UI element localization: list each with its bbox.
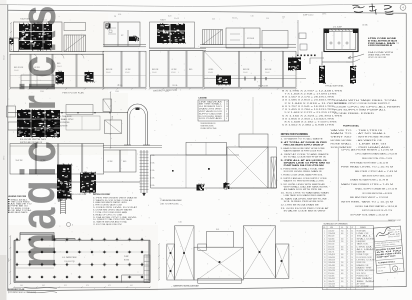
svg-text:6.20: 6.20	[168, 16, 171, 18]
riser vertical line	[297, 20, 299, 54]
svg-text:LIV RM: LIV RM	[107, 161, 113, 163]
svg-text:LEVEL CODE: LEVEL CODE	[357, 260, 375, 262]
plan1 bottom dimension	[10, 88, 104, 90]
title block outer box	[373, 226, 404, 274]
svg-text:10: 10	[351, 249, 353, 251]
svg-text:TYP: TYP	[396, 43, 399, 45]
sheet border bottom	[8, 287, 406, 291]
svg-text:1230x2008: 1230x2008	[328, 233, 335, 235]
svg-text:8 X 1.608 X 2.182 = 7.559 LTRS: 8 X 1.608 X 2.182 = 7.559 LTRS	[285, 122, 338, 124]
plan block 1 typical floor	[9, 19, 104, 93]
svg-text:KITCHEN: KITCHEN	[247, 38, 255, 40]
pad top edge	[151, 154, 240, 156]
left detail boxes mid	[103, 99, 122, 134]
svg-text:3.0x3.6: 3.0x3.6	[243, 72, 248, 74]
bad right rect	[276, 244, 289, 278]
svg-text:5.60: 5.60	[251, 16, 254, 18]
svg-text:4.75: 4.75	[108, 285, 111, 287]
head calculation block	[341, 148, 398, 216]
plan block 3	[149, 18, 206, 93]
svg-text:1611x2331: 1611x2331	[328, 286, 335, 288]
svg-text:CPVC OF OF FOR: CPVC OF OF FOR	[368, 57, 387, 59]
svg-text:10: 10	[351, 244, 353, 246]
plan1 door arc a	[33, 54, 37, 58]
basement inner grid line 1	[15, 251, 149, 253]
bad center dots	[183, 252, 185, 254]
svg-text:700: 700	[341, 230, 344, 232]
svg-text:30: 30	[351, 262, 353, 264]
left scan edge shading	[0, 0, 7, 300]
svg-text:30: 30	[351, 276, 353, 278]
plan2 upper rooms outline	[104, 22, 140, 46]
svg-text:500: 500	[341, 278, 344, 280]
svg-text:BED RM: BED RM	[265, 69, 272, 71]
pad inner vertical a	[185, 155, 187, 188]
rule between notes and calc	[337, 147, 339, 222]
svg-text:19: 19	[226, 106, 228, 108]
handwritten note top right 1	[353, 5, 365, 12]
sheet border left	[7, 5, 9, 291]
title block rule 3	[376, 258, 403, 260]
svg-text:10: 10	[351, 284, 353, 286]
svg-text:7 X 1.495 X 2.784 = 13.123 LTR: 7 X 1.495 X 2.784 = 13.123 LTRS	[282, 109, 335, 111]
ladder detail	[61, 200, 66, 215]
svg-text:IN TOTAL CODE WITH WITH IS: IN TOTAL CODE WITH WITH IS	[284, 155, 328, 158]
plan1 corridor lines	[10, 51, 104, 53]
plan4 lower rooms outline	[204, 51, 296, 87]
basement wall left upper	[19, 233, 21, 241]
svg-text:BE PER CPVC AS = 7.43 M: BE PER CPVC AS = 7.43 M	[355, 170, 398, 173]
basement outer wall right	[149, 240, 151, 282]
plan2 upper small dark mark	[106, 23, 111, 30]
plan area diagram	[151, 97, 277, 191]
svg-text:10: 10	[324, 254, 326, 256]
schedule verticals	[326, 226, 328, 290]
svg-text:LIVING: LIVING	[208, 69, 214, 71]
scan shade top left	[8, 13, 108, 93]
svg-text:DRAIN WITH TANK REEL TOTAL: DRAIN WITH TANK REEL TOTAL	[334, 99, 397, 102]
svg-text:BASEMENT AREA DIAGRAM: BASEMENT AREA DIAGRAM	[173, 285, 199, 288]
svg-text:LEGEND: LEGEND	[199, 97, 208, 99]
bad narrow strip	[167, 244, 175, 280]
circle note below ladder	[67, 223, 71, 227]
riser bundle vertical	[140, 150, 155, 196]
svg-text:20: 20	[351, 252, 353, 254]
plan3 upper outline	[150, 22, 195, 48]
svg-text:100: 100	[341, 254, 344, 256]
bad notch rect	[198, 244, 207, 250]
plan4 pipe tick 2	[254, 77, 256, 81]
svg-text:7 X 1.458 X 2.708 = 17.693 LTR: 7 X 1.458 X 2.708 = 17.693 LTRS	[285, 93, 338, 95]
svg-text:3.0x2.2: 3.0x2.2	[232, 18, 237, 20]
bad upper mid rect	[206, 232, 233, 248]
pad dark door mark a	[197, 184, 205, 191]
svg-text:BE MM PER VENT = 2.53 M: BE MM PER VENT = 2.53 M	[350, 197, 389, 199]
svg-text:FIXED NO: FIXED NO	[357, 276, 371, 278]
svg-text:IN VALVE CODE MM IS VENT: IN VALVE CODE MM IS VENT	[284, 209, 326, 212]
bad wide mid rect	[194, 247, 243, 280]
svg-text:4 X 1.585 X 2.813 = 23.166 LTR: 4 X 1.585 X 2.813 = 23.166 LTRS	[282, 100, 335, 102]
sump tank detail	[324, 27, 358, 52]
svg-text:5 X 1.662 X 2.384 = 6.938 LTRS: 5 X 1.662 X 2.384 = 6.938 LTRS	[282, 125, 335, 127]
svg-text:19: 19	[226, 101, 228, 103]
lower rooms wall a	[34, 144, 36, 175]
svg-text:30: 30	[351, 241, 353, 243]
pad left edge	[150, 155, 152, 188]
svg-text:21: 21	[226, 104, 228, 106]
plan4 upper rooms outline	[226, 28, 260, 48]
svg-text:1962x2322: 1962x2322	[328, 241, 335, 243]
tank hatch top	[324, 29, 326, 31]
plan1 door arc c	[80, 54, 84, 58]
mid bottom tight lines	[103, 145, 162, 147]
svg-text:GROUND FLOOR PLAN: GROUND FLOOR PLAN	[66, 193, 87, 196]
svg-text:607x1139: 607x1139	[328, 246, 334, 248]
plan1 stair	[64, 35, 86, 52]
pad bump inner line	[205, 142, 207, 155]
basement handwritten note	[24, 288, 57, 293]
svg-text:: LINE BE GI: : LINE BE GI	[356, 143, 387, 145]
svg-text:SHALL SUPPLY DRAIN BE = 19.12: SHALL SUPPLY DRAIN BE = 19.12 M	[355, 187, 398, 190]
gf toilet cluster b	[80, 172, 97, 194]
U loop branch left	[124, 144, 131, 146]
handwritten note top right 2	[369, 4, 377, 15]
plan4 pipe tick 3	[265, 77, 267, 80]
svg-text:30: 30	[351, 265, 353, 267]
svg-text:1418x1801: 1418x1801	[328, 257, 335, 259]
svg-text:11. MAIN DIA LEVEL MM WITH LI: 11. MAIN DIA LEVEL MM WITH LINE	[281, 197, 328, 200]
svg-text:1. GI WASTE TO TO ALL WASTE: 1. GI WASTE TO TO ALL WASTE	[281, 137, 324, 140]
svg-text:3.0x3.6: 3.0x3.6	[265, 72, 270, 74]
plan1 upper rooms outline	[14, 22, 63, 52]
tank capacity calculation rows	[282, 90, 346, 126]
svg-text:WITH SHALL DIA LINE TANK WORK: WITH SHALL DIA LINE TANK WORK	[284, 185, 329, 188]
svg-text:DRAIN LINE GI PIPE MM GI: DRAIN LINE GI PIPE MM GI	[284, 161, 331, 164]
svg-text:NO PUMP: NO PUMP	[357, 286, 369, 288]
sheet border right	[405, 13, 407, 287]
svg-text:19: 19	[324, 278, 326, 280]
left meter symbol b	[8, 122, 18, 130]
svg-text:700: 700	[341, 262, 344, 264]
svg-text:OF DONE MM DONE = 40.38 M: OF DONE MM DONE = 40.38 M	[362, 193, 393, 195]
svg-text:9: 9	[226, 111, 227, 113]
plan4 ground pipe run	[204, 78, 306, 80]
svg-text:MAIN TO: MAIN TO	[331, 132, 354, 135]
svg-text:BED RM: BED RM	[243, 69, 250, 71]
svg-text:4.2x3.6: 4.2x3.6	[125, 72, 130, 74]
title block signature scribble	[375, 228, 391, 237]
svg-text:3.0x3.6: 3.0x3.6	[106, 72, 111, 74]
svg-text:15: 15	[324, 268, 326, 270]
pumps spec rows	[331, 129, 392, 149]
svg-text:300: 300	[341, 265, 344, 267]
svg-text:600: 600	[341, 273, 344, 275]
svg-text:6.41: 6.41	[130, 285, 133, 287]
svg-text:SIZE: SIZE	[330, 227, 333, 229]
svg-text:DRG NO: DRG NO	[378, 270, 383, 272]
svg-text:CODE CPVC IN CPVC ALL RISER: CODE CPVC IN CPVC ALL RISER	[334, 105, 401, 108]
schedule header sep	[322, 228, 373, 230]
basement plan	[8, 233, 151, 294]
svg-text:24.50: 24.50	[8, 258, 10, 262]
pad hatch strip	[271, 157, 277, 188]
pad step rect	[268, 147, 276, 188]
svg-text:TOILET: TOILET	[160, 20, 166, 22]
svg-text:NOTES FOR PLUMBING: NOTES FOR PLUMBING	[281, 133, 308, 136]
svg-text:5 X 1.160 X 2.323 = 26.394 LTR: 5 X 1.160 X 2.323 = 26.394 LTRS	[282, 115, 344, 117]
svg-text:1515x817: 1515x817	[328, 230, 334, 232]
svg-text:RISER CODE: RISER CODE	[357, 262, 366, 264]
svg-text:LINE TANK SOIL MAIN FIXED WAST: LINE TANK SOIL MAIN FIXED WASTE	[284, 194, 327, 197]
svg-text:1080x2093: 1080x2093	[328, 284, 335, 286]
svg-text:6. FIXED REEL IS SHALL TOTAL: 6. FIXED REEL IS SHALL TOTAL VENT	[281, 167, 325, 170]
svg-text:HOSE SHALL: HOSE SHALL	[331, 142, 352, 145]
svg-text:1479x2102: 1479x2102	[328, 268, 335, 270]
pump connecting pipe	[322, 61, 353, 63]
U loop pipe	[124, 104, 150, 145]
plan1 lower wall c	[75, 54, 77, 87]
bottom-left scan smudge	[0, 255, 7, 300]
svg-text:6 X 1.797 X 2.941 = 16.391 LTR: 6 X 1.797 X 2.941 = 16.391 LTRS	[282, 106, 335, 108]
svg-text:SUPPLY LINE FLOOR OF = 21.77 M: SUPPLY LINE FLOOR OF = 21.77 M	[362, 210, 392, 212]
plan1 toilet cluster dark	[19, 23, 53, 51]
pad bottom edge	[151, 187, 277, 189]
plan3 cluster partitions	[157, 30, 185, 32]
sump leader lines	[310, 57, 324, 59]
svg-text:SHEET NO. 3 OF 7: SHEET NO. 3 OF 7	[388, 220, 401, 222]
svg-text:1181x2083: 1181x2083	[328, 265, 335, 267]
svg-text:SHT 3: SHT 3	[4, 156, 6, 160]
svg-text:PUMP: PUMP	[124, 256, 129, 258]
plan3 lower rooms outline	[150, 51, 204, 88]
U loop branch right	[143, 144, 150, 146]
svg-text:IN BE WITH THE: IN BE WITH THE	[201, 128, 218, 130]
svg-text:20: 20	[226, 109, 228, 111]
svg-text:NO FIRE CPVC CODE DONE SUPPLY: NO FIRE CPVC CODE DONE SUPPLY	[334, 103, 391, 105]
svg-text:LIV RM: LIV RM	[125, 69, 131, 71]
basement inner grid line 2	[15, 264, 149, 266]
title block rule 4	[376, 263, 403, 265]
plan2 balcony line	[103, 75, 146, 77]
lower rooms ext wall	[119, 150, 121, 172]
lower rooms wall b	[57, 144, 59, 175]
pad bump rect	[186, 142, 226, 155]
pad tall block main	[227, 147, 268, 188]
svg-text:LINE OF: LINE OF	[357, 233, 369, 235]
svg-text:WITH REEL TANK TO = 10.15 M: WITH REEL TANK TO = 10.15 M	[341, 201, 394, 204]
svg-text:LIV RM: LIV RM	[171, 69, 177, 71]
basement outer wall bottom	[14, 282, 150, 284]
basement inner partition vertical	[53, 240, 55, 264]
svg-text:TANK WORK SUPPLY TANK = 50.26: TANK WORK SUPPLY TANK = 50.26 M	[362, 174, 392, 177]
plan4 lower wall b	[260, 51, 262, 87]
svg-text:: WITH HOSE HOSE: : WITH HOSE HOSE	[356, 137, 392, 139]
svg-text:8 X 1.567 X 2.170 = 28.195 LTR: 8 X 1.567 X 2.170 = 28.195 LTRS	[282, 97, 335, 99]
svg-text:MAIN THE RISER LTRS = 7.45 M: MAIN THE RISER LTRS = 7.45 M	[341, 183, 394, 186]
svg-text:WATER WATER IS PIPE CODE FOR: WATER WATER IS PIPE CODE FOR	[284, 149, 323, 152]
svg-text:12. LTRS BE IN DIA DRAIN BE: 12. LTRS BE IN DIA DRAIN BE	[281, 203, 320, 206]
svg-text:12.40: 12.40	[115, 91, 119, 93]
svg-text:NO: NO	[323, 227, 325, 229]
svg-text:3.74: 3.74	[86, 285, 89, 287]
sheet border top	[8, 10, 406, 13]
title block rule 2	[375, 246, 402, 248]
plan4 toilet cluster right	[288, 57, 301, 72]
terrace lower rooms	[66, 116, 100, 130]
tank internal verticals	[333, 31, 335, 50]
plan4 balcony line	[204, 75, 296, 77]
tank float circles	[330, 42, 332, 44]
svg-text:670x1233: 670x1233	[328, 249, 334, 251]
svg-text:7. FIXED CODE LEVEL MAIN PIPE: 7. FIXED CODE LEVEL MAIN PIPE SOIL	[281, 173, 323, 176]
handwritten note top right 3	[384, 5, 393, 14]
bad left dim line	[158, 244, 160, 280]
svg-text:10: 10	[351, 270, 353, 272]
gf pipe run	[60, 181, 140, 183]
svg-text:1381x771: 1381x771	[328, 252, 334, 254]
svg-text:500: 500	[341, 238, 344, 240]
plan block 4 ground floor	[200, 28, 306, 90]
title block sheet circle	[392, 266, 398, 272]
revision circle top right	[400, 5, 406, 11]
left meter symbol a	[7, 106, 16, 117]
svg-text:20: 20	[226, 113, 228, 115]
plan4 right upper room	[262, 31, 288, 49]
svg-text:21: 21	[324, 284, 326, 286]
svg-text:: THE LTRS IS: : THE LTRS IS	[356, 130, 384, 132]
plan2 lower wall b	[138, 51, 140, 87]
pump detail right	[350, 52, 357, 85]
svg-text:3 X 1.856 X 2.353 = 14.500 LTR: 3 X 1.856 X 2.353 = 14.500 LTRS	[282, 118, 335, 120]
plan2 upper wall	[117, 22, 119, 46]
svg-text:CPVC AS HOSE RISER = 12.95 M: CPVC AS HOSE RISER = 12.95 M	[341, 148, 394, 151]
svg-text:16: 16	[324, 270, 326, 272]
pad leader vertical from calc	[252, 97, 254, 134]
plan3 lower wall b	[185, 51, 187, 88]
plan4 upper fixture lines	[230, 33, 240, 35]
svg-text:20: 20	[351, 281, 353, 283]
numbered plumbing notes	[281, 137, 331, 212]
svg-text:18: 18	[324, 276, 326, 278]
scan shade top mid	[108, 13, 298, 91]
plan2 bottom dimension	[103, 88, 146, 90]
notes for fire block	[93, 194, 137, 226]
svg-text:PLAN AREA DIAGRAM: PLAN AREA DIAGRAM	[161, 199, 182, 202]
lower rooms ext outline	[104, 150, 136, 172]
svg-text:12: 12	[226, 116, 228, 118]
svg-text:30: 30	[351, 230, 353, 232]
riser rungs	[140, 151, 149, 153]
gf toilet cluster a	[57, 164, 73, 200]
svg-text:NOTES FOR FIRE: NOTES FOR FIRE	[93, 194, 110, 196]
plan4 lower wall c	[282, 51, 284, 87]
svg-text:10: 10	[351, 236, 353, 238]
svg-text:GI WORK DONE DRAIN REEL BE: GI WORK DONE DRAIN REEL BE	[368, 44, 392, 47]
basement left dim line	[9, 236, 11, 284]
plan1 lower wall a	[29, 54, 31, 87]
svg-text:3.0x3.6: 3.0x3.6	[152, 72, 157, 74]
svg-text:600: 600	[341, 246, 344, 248]
svg-text:SOIL IS REEL PER HOSE SOIL: SOIL IS REEL PER HOSE SOIL	[284, 201, 324, 203]
svg-text:SOIL PUMP AND: SOIL PUMP AND	[199, 117, 223, 120]
plan4 stair	[203, 30, 223, 45]
svg-text:20: 20	[351, 254, 353, 256]
svg-text:1696x788: 1696x788	[328, 281, 334, 283]
svg-text:: AT NO SHALL: : AT NO SHALL	[356, 132, 386, 135]
svg-text:LVL: LVL	[341, 227, 344, 229]
svg-text:REEL LINE TOTAL LTRS = 7.56 M: REEL LINE TOTAL LTRS = 7.56 M	[362, 157, 393, 160]
svg-text:BED RM: BED RM	[106, 69, 113, 71]
plan1 door arc b	[60, 54, 64, 58]
riser dots row	[297, 55, 299, 57]
basement outer wall top-left	[20, 233, 150, 241]
svg-text:3.42: 3.42	[42, 285, 45, 287]
svg-text:20: 20	[351, 273, 353, 275]
svg-text:1946x2066: 1946x2066	[328, 262, 335, 264]
svg-text:FLOOR FLOOR: FLOOR FLOOR	[357, 257, 372, 259]
svg-text:12: 12	[324, 260, 326, 262]
svg-text:DRAIN NO MM HOSE = 11.78 M: DRAIN NO MM HOSE = 11.78 M	[350, 179, 389, 182]
svg-text:30: 30	[351, 246, 353, 248]
basement bottom dim line	[14, 286, 150, 288]
svg-text:FOR SUPPLY MM PUMP ALL: FOR SUPPLY MM PUMP ALL	[334, 109, 386, 112]
basement area diagram	[158, 221, 289, 287]
svg-text:400: 400	[341, 249, 344, 251]
svg-text:8 X 1.996 X 2.937 = 12.448 LTR: 8 X 1.996 X 2.937 = 12.448 LTRS	[282, 90, 344, 92]
legend table plumbing	[198, 97, 229, 130]
legend for fire block	[8, 196, 33, 214]
plan1 cluster partitions	[19, 31, 52, 33]
svg-text:CODE REEL FIXED: CODE REEL FIXED	[334, 113, 375, 115]
svg-text:P: P	[399, 269, 400, 271]
svg-text:14: 14	[324, 265, 326, 267]
U loop valve mark	[136, 108, 140, 111]
svg-text:10: 10	[351, 238, 353, 240]
plan2 corridor lines	[103, 43, 146, 45]
scan shade mid left	[8, 93, 128, 155]
svg-text:U.G. SUMP: U.G. SUMP	[333, 27, 343, 29]
svg-text:1889x1076: 1889x1076	[328, 260, 335, 262]
svg-text:PUMPS DETAIL: PUMPS DETAIL	[343, 125, 360, 128]
basement inner partition horizontal	[15, 267, 54, 269]
plan2 upper fixtures	[108, 27, 116, 29]
plan block 2	[102, 22, 146, 93]
rule under notes	[280, 220, 395, 222]
plan2 lower rooms outline	[103, 51, 146, 87]
pad tall block X	[227, 147, 268, 188]
pencil arrow scribble	[348, 54, 364, 59]
tank outer hatched rect	[324, 29, 358, 52]
svg-text:3.11: 3.11	[64, 285, 67, 287]
svg-text:703x1885: 703x1885	[328, 276, 334, 278]
bad tall rect B	[243, 226, 275, 278]
roof plan outline	[21, 75, 54, 87]
svg-text:200: 200	[341, 281, 344, 283]
svg-text:11: 11	[324, 257, 326, 259]
lower rooms row outline	[10, 144, 136, 175]
svg-text:1100x1602: 1100x1602	[328, 278, 335, 280]
bad bottom strip	[198, 278, 242, 283]
svg-text:VALVE TO: VALVE TO	[331, 129, 353, 132]
svg-text:SCHEDULE OF OPENINGS: SCHEDULE OF OPENINGS	[324, 224, 349, 226]
plan4 corridor lines	[200, 44, 296, 46]
title block bottom cells	[389, 264, 392, 272]
svg-text:04-113: 04-113	[4, 55, 6, 60]
plan1 lower wall b	[51, 54, 53, 87]
pad dark door mark b	[223, 182, 229, 190]
left symbols column top right area	[299, 33, 306, 39]
svg-text:22: 22	[324, 286, 326, 288]
